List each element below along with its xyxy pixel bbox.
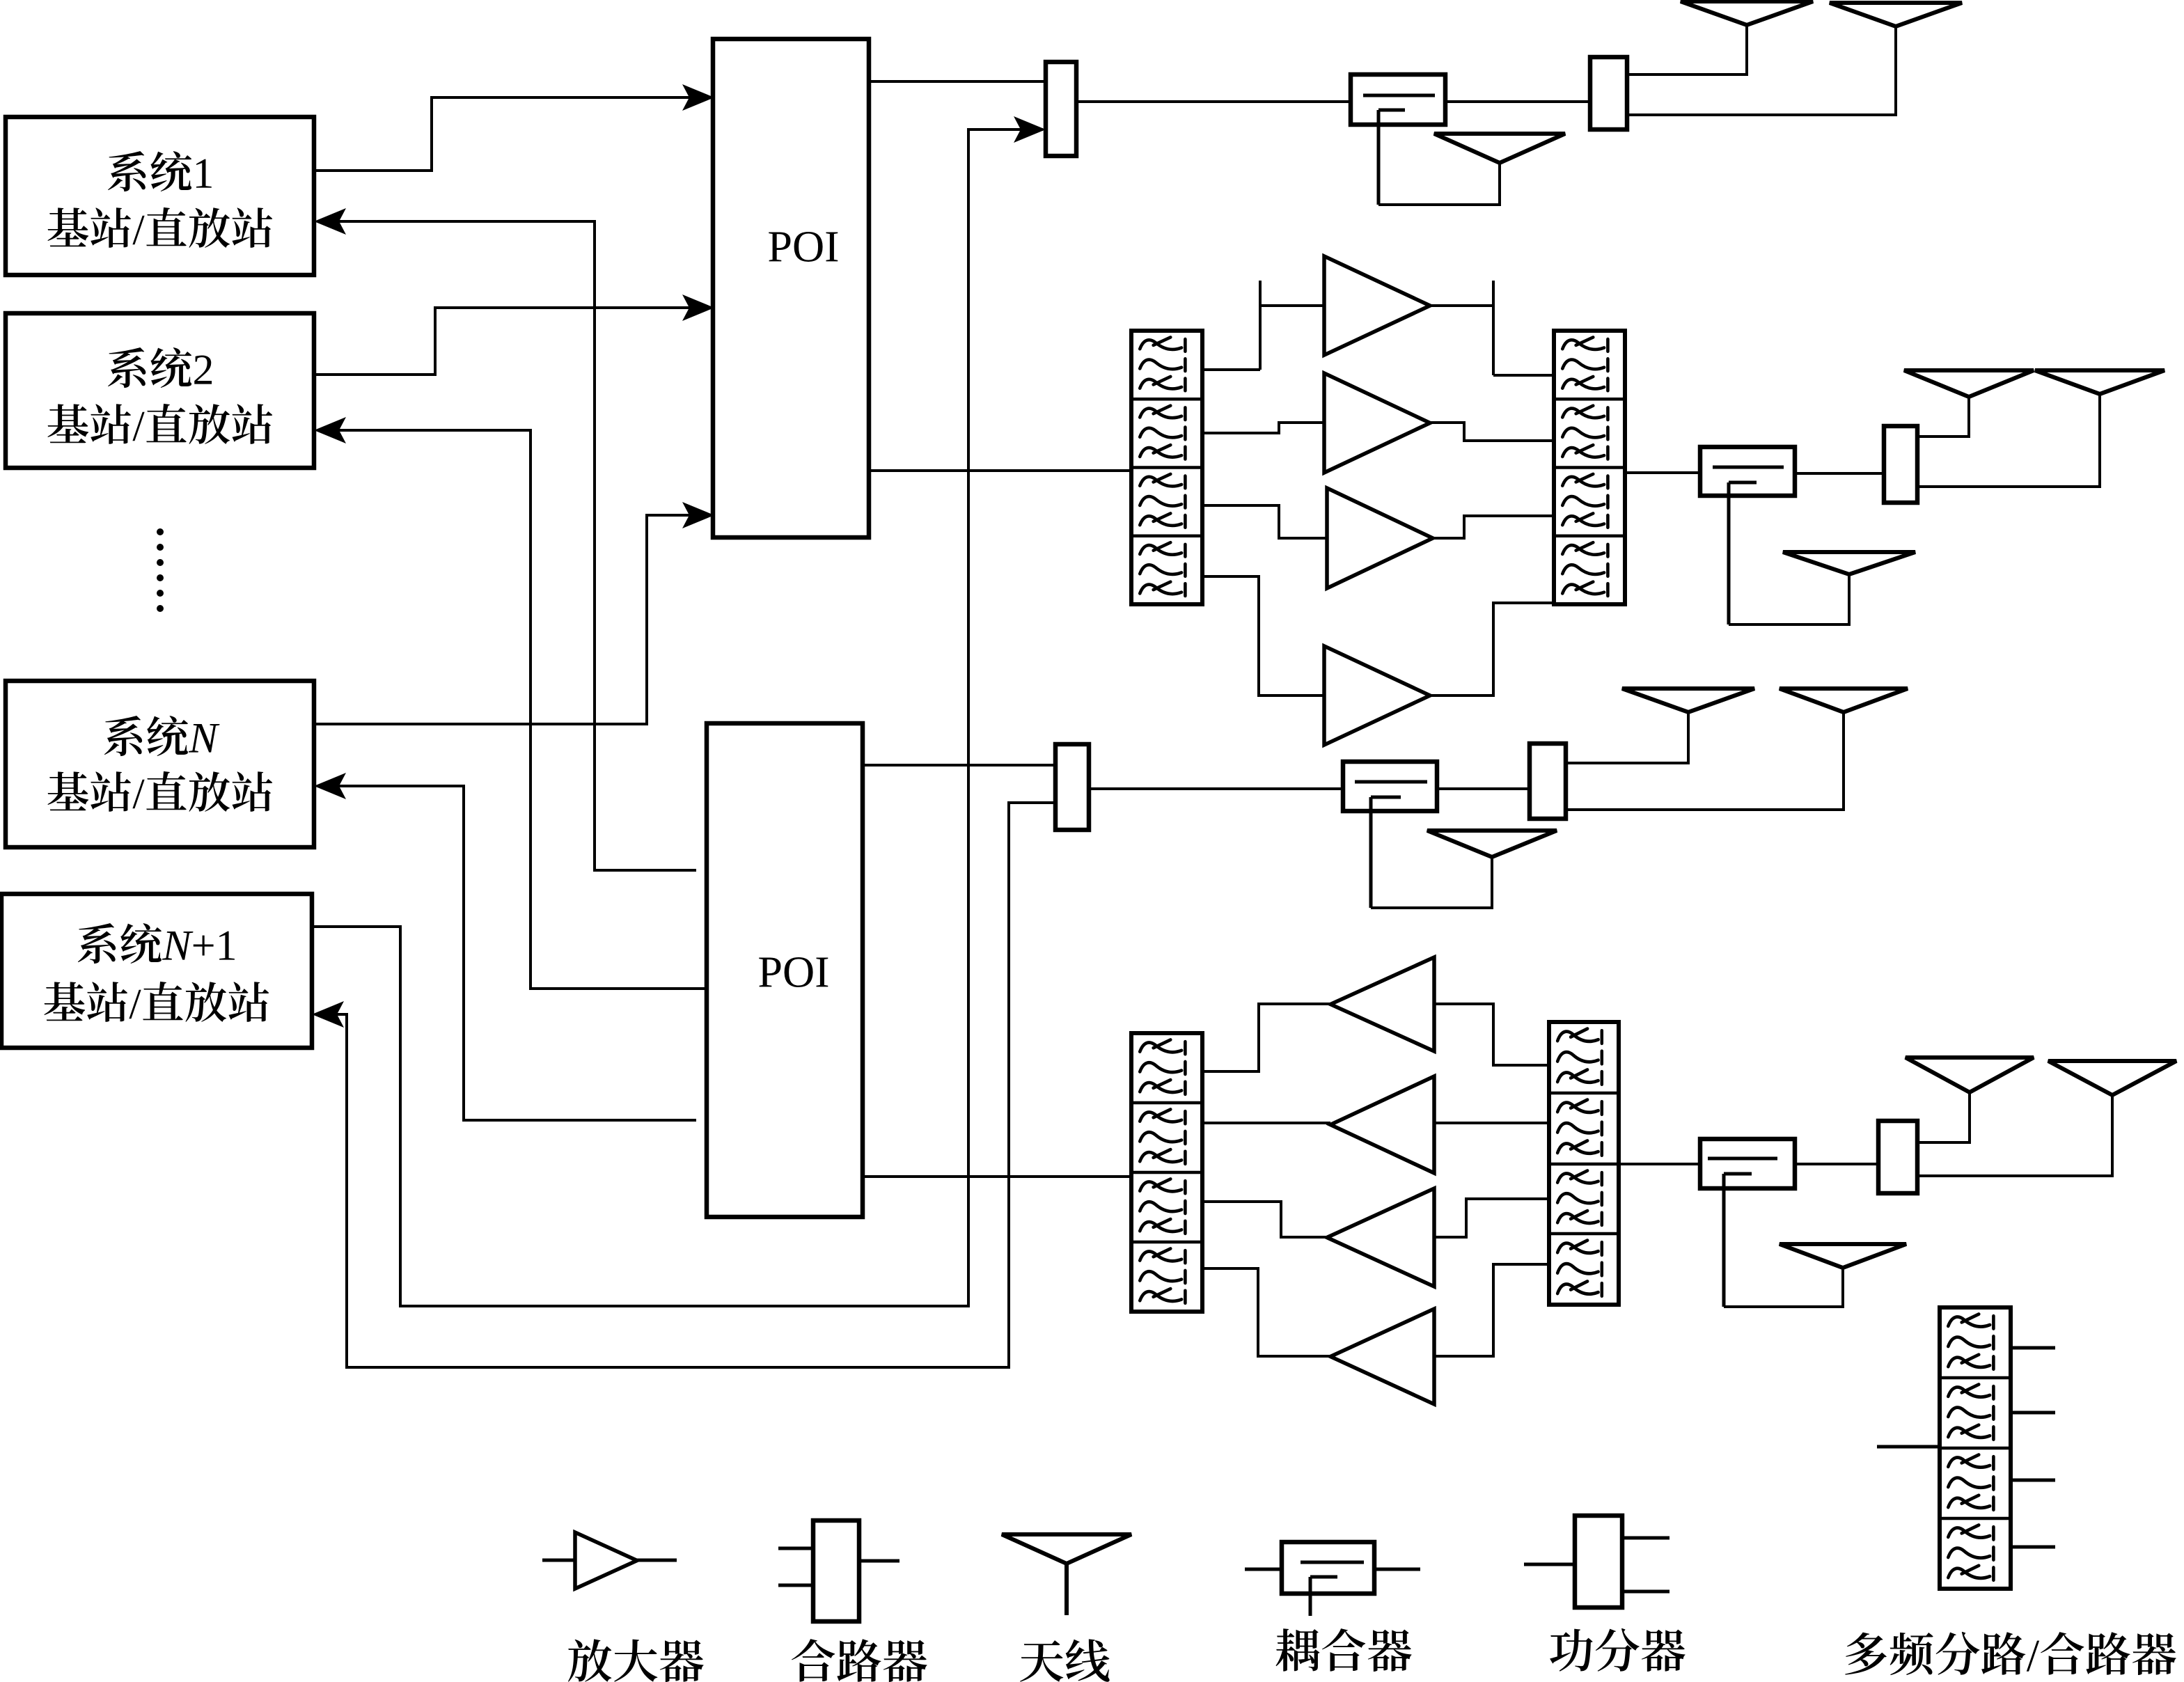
POI U2 xyxy=(707,723,863,1217)
multifreq combiner M1 xyxy=(1131,1033,1202,1312)
wire coupler1 to divider1 xyxy=(1445,100,1590,103)
divider D1 xyxy=(1590,57,1627,129)
amplifier B3 xyxy=(1327,1188,1434,1287)
wire divider3 to systemN+1 xyxy=(315,803,1055,1367)
wire amp B4 to M1 port4 xyxy=(1202,1268,1330,1356)
multifreq splitter M2 xyxy=(1549,1022,1619,1305)
divider D4 xyxy=(1530,744,1566,819)
wire coupler3 to divider4 xyxy=(1437,787,1530,790)
wire coupler3 coupled to antenna xyxy=(1371,857,1492,908)
wire M3 port3 to amp A3 xyxy=(1202,505,1327,538)
coupler K4 xyxy=(1700,1139,1795,1188)
wire divider1 to antenna A1 xyxy=(1627,25,1747,74)
divider D3 xyxy=(1055,744,1089,830)
antenna B1 xyxy=(1904,370,2034,397)
wire divider2 to antenna B1 xyxy=(1917,397,1969,437)
wire amp B2 to M1 port2 xyxy=(1202,1122,1330,1124)
wire systemN to POI1 xyxy=(314,515,710,724)
amplifier A3 xyxy=(1327,488,1433,588)
wire POI1 out1 xyxy=(869,80,1046,83)
wire coupler2 to divider2 xyxy=(1795,472,1884,475)
wire M2 port3 to amp B3 xyxy=(1434,1199,1549,1237)
wire amp B3 to M1 port3 xyxy=(1202,1202,1327,1237)
wire divider1 to antenna A2 xyxy=(1627,26,1896,115)
wire combiner1 to coupler1 xyxy=(1076,100,1351,103)
antenna B2 xyxy=(2035,370,2165,394)
wire coupler4 to divider5 xyxy=(1795,1163,1878,1165)
antenna A3 mid-top xyxy=(1434,134,1565,163)
antenna E mid-bottom xyxy=(1780,1244,1906,1268)
wire divider4 to antenna C1 xyxy=(1566,712,1688,763)
wire M2 port2 to amp B2 xyxy=(1434,1122,1549,1124)
antenna A2 xyxy=(1830,3,1962,26)
box system1 base-station xyxy=(6,117,314,275)
wire POI1 out2 to multifreq M3 xyxy=(869,469,1131,472)
wire POI2 out1 to divider3 xyxy=(863,764,1055,767)
amplifier B4 xyxy=(1330,1309,1434,1404)
wire M3 port1 to amp A1 xyxy=(1202,368,1260,371)
legend label combiner xyxy=(792,1639,927,1682)
ellipsis dots xyxy=(157,528,164,612)
coupler K1 xyxy=(1351,74,1445,125)
wire amp A4 to multifreq M4 xyxy=(1430,603,1554,695)
wire M3 port4 to amp A4 xyxy=(1202,576,1324,695)
combiner C1 xyxy=(1046,62,1076,156)
wire divider2 to antenna B2 xyxy=(1917,394,2100,487)
wire system2 to POI1 xyxy=(314,308,710,375)
legend combiner symbol xyxy=(813,1520,859,1621)
divider D5 xyxy=(1878,1121,1917,1193)
divider D2 xyxy=(1884,426,1917,503)
amplifier A1 xyxy=(1324,256,1430,355)
wire divider4 to antenna C2 xyxy=(1566,712,1844,810)
antenna C2 xyxy=(1780,689,1908,712)
wire M4 to coupler2 xyxy=(1625,471,1700,474)
wire systemN+1 to combiner1 xyxy=(312,129,1043,1306)
amplifier A4 xyxy=(1324,646,1430,745)
wire M3 port2 to amp A2 xyxy=(1202,423,1324,433)
POI U1 xyxy=(713,39,869,537)
wire M2 to coupler4 xyxy=(1619,1163,1700,1165)
multifreq splitter M3 xyxy=(1131,331,1202,604)
wire M2 port4 to amp B4 xyxy=(1434,1264,1549,1356)
wire amp A1 to multifreq M4 xyxy=(1430,304,1493,307)
wire coupler2 coupled to antenna xyxy=(1729,574,1849,624)
wire coupler4 coupled to antenna xyxy=(1724,1268,1843,1307)
wire POI2 to system1 xyxy=(317,221,696,870)
wire divider5 to antenna F2 xyxy=(1917,1095,2112,1176)
amplifier B2 xyxy=(1330,1076,1434,1173)
wire amp B1 to M1 port1 xyxy=(1202,1004,1330,1071)
wire POI2 to system2 xyxy=(317,430,709,989)
wire divider5 to antenna F1 xyxy=(1917,1092,1970,1142)
legend label divider xyxy=(1550,1628,1685,1672)
antenna F2 xyxy=(2048,1061,2176,1095)
wire amp A3 to multifreq M4 xyxy=(1433,516,1554,538)
legend coupler symbol xyxy=(1245,1568,1282,1571)
antenna F1 xyxy=(1906,1058,2034,1092)
wire M2 port1 to amp B1 xyxy=(1434,1004,1549,1065)
wire POI2 out2 to multifreq M1 xyxy=(863,1175,1131,1178)
amplifier B1 xyxy=(1330,957,1434,1051)
antenna C1 xyxy=(1622,689,1754,712)
box systemN base-station xyxy=(6,681,314,847)
wire system1 to POI1 xyxy=(314,97,710,171)
legend label multifreq xyxy=(1845,1632,2176,1675)
legend label amplifier xyxy=(568,1639,704,1682)
wire divider3 to coupler3 xyxy=(1089,787,1343,790)
box systemN+1 base-station xyxy=(1,894,312,1048)
legend amplifier symbol xyxy=(542,1559,575,1562)
antenna B3 mid xyxy=(1783,552,1915,574)
coupler K2 xyxy=(1700,447,1795,496)
legend label coupler xyxy=(1276,1628,1412,1672)
box system2 base-station xyxy=(6,313,314,468)
antenna A1 xyxy=(1681,1,1813,25)
legend label antenna xyxy=(1020,1639,1110,1681)
multifreq combiner M4 xyxy=(1554,331,1625,604)
wire POI2 to systemN xyxy=(317,786,696,1120)
wire amp A2 to multifreq M4 xyxy=(1430,423,1554,441)
antenna C3 xyxy=(1427,831,1557,857)
wire coupler1 coupled to antenna xyxy=(1378,163,1500,205)
amplifier A2 xyxy=(1324,373,1430,473)
legend multifreq symbol xyxy=(1940,1307,2011,1589)
legend antenna symbol xyxy=(1002,1534,1131,1564)
coupler K3 xyxy=(1343,762,1437,811)
legend divider symbol xyxy=(1575,1516,1622,1608)
